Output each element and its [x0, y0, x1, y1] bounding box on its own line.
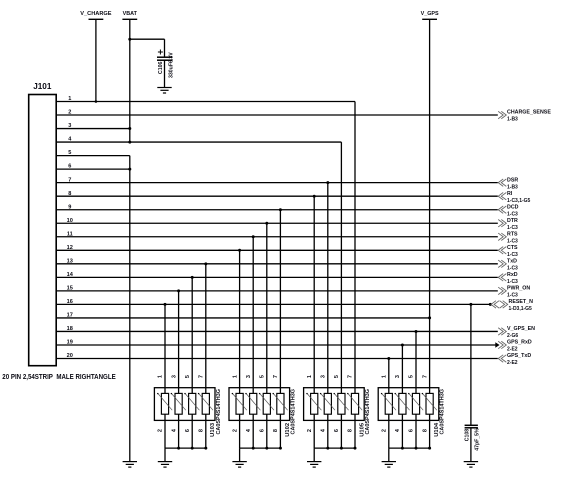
svg-text:J101: J101	[33, 81, 52, 91]
svg-text:7: 7	[422, 375, 428, 378]
svg-text:1: 1	[232, 375, 238, 378]
svg-text:V_GPS: V_GPS	[421, 11, 439, 17]
svg-text:CA0SP4S14TH3G: CA0SP4S14TH3G	[365, 389, 371, 435]
svg-text:1-B3: 1-B3	[507, 117, 518, 123]
svg-text:2: 2	[307, 429, 313, 432]
svg-text:6: 6	[409, 429, 415, 432]
svg-text:2: 2	[232, 429, 238, 432]
svg-text:5: 5	[185, 375, 191, 378]
svg-text:VBAT: VBAT	[123, 11, 138, 17]
svg-text:8: 8	[273, 429, 279, 432]
svg-text:2-E2: 2-E2	[507, 360, 518, 366]
svg-text:5: 5	[334, 375, 340, 378]
svg-text:PWR_ON: PWR_ON	[507, 286, 530, 292]
svg-text:7: 7	[199, 375, 205, 378]
svg-text:CTS: CTS	[507, 245, 518, 251]
svg-text:1: 1	[158, 375, 164, 378]
svg-text:2-G6: 2-G6	[507, 333, 518, 339]
svg-text:DSR: DSR	[507, 177, 518, 183]
svg-text:8: 8	[348, 429, 354, 432]
svg-text:CA0SP4S14TH3G: CA0SP4S14TH3G	[440, 389, 446, 435]
svg-text:2: 2	[158, 429, 164, 432]
svg-text:6: 6	[260, 429, 266, 432]
svg-text:1-C3: 1-C3	[507, 293, 518, 299]
svg-text:3: 3	[246, 375, 252, 378]
svg-text:1-D3,1-G5: 1-D3,1-G5	[509, 306, 533, 312]
svg-text:CA0SP4S14TH3G: CA0SP4S14TH3G	[291, 389, 297, 435]
svg-text:2: 2	[382, 429, 388, 432]
svg-text:6: 6	[334, 429, 340, 432]
svg-text:3: 3	[395, 375, 401, 378]
svg-text:20 PIN 2,54STRIP MALE RIGHTAN: 20 PIN 2,54STRIP MALE RIGHTANGLE	[2, 372, 116, 381]
svg-text:1-C3: 1-C3	[507, 266, 518, 272]
svg-text:1-C3: 1-C3	[507, 238, 518, 244]
svg-text:6: 6	[185, 429, 191, 432]
svg-text:1-C3: 1-C3	[507, 252, 518, 258]
svg-text:1-B3: 1-B3	[507, 184, 518, 190]
svg-text:GPS_RxD: GPS_RxD	[507, 340, 532, 346]
svg-text:RI: RI	[507, 191, 513, 197]
svg-text:8: 8	[422, 429, 428, 432]
svg-text:V_GPS_EN: V_GPS_EN	[507, 326, 535, 332]
svg-text:2-E2: 2-E2	[507, 347, 518, 353]
svg-text:RESET_N: RESET_N	[509, 299, 534, 305]
svg-text:47pF_5%: 47pF_5%	[475, 428, 481, 451]
svg-text:7: 7	[348, 375, 354, 378]
svg-text:3: 3	[321, 375, 327, 378]
svg-text:CHARGE_SENSE: CHARGE_SENSE	[507, 110, 551, 116]
svg-text:8: 8	[199, 429, 205, 432]
svg-text:1-C3: 1-C3	[507, 211, 518, 217]
svg-text:CA0SP4S14TH3G: CA0SP4S14TH3G	[216, 389, 222, 435]
svg-text:5: 5	[409, 375, 415, 378]
svg-text:1-C3,1-G5: 1-C3,1-G5	[507, 198, 531, 204]
svg-text:GPS_TxD: GPS_TxD	[507, 353, 531, 359]
svg-text:1-C3: 1-C3	[507, 279, 518, 285]
svg-text:DCD: DCD	[507, 204, 519, 210]
svg-text:3: 3	[171, 375, 177, 378]
svg-text:1-C3: 1-C3	[507, 225, 518, 231]
svg-text:5: 5	[260, 375, 266, 378]
svg-text:V_CHARGE: V_CHARGE	[80, 11, 112, 17]
svg-text:RxD: RxD	[507, 272, 518, 278]
svg-text:1: 1	[382, 375, 388, 378]
svg-text:C106: C106	[158, 61, 164, 74]
svg-text:330uF6.3V: 330uF6.3V	[169, 52, 175, 78]
svg-text:TxD: TxD	[507, 259, 517, 265]
svg-text:RTS: RTS	[507, 231, 518, 237]
svg-text:DTR: DTR	[507, 218, 518, 224]
svg-text:1: 1	[307, 375, 313, 378]
svg-text:C108: C108	[464, 429, 470, 442]
svg-text:7: 7	[273, 375, 279, 378]
